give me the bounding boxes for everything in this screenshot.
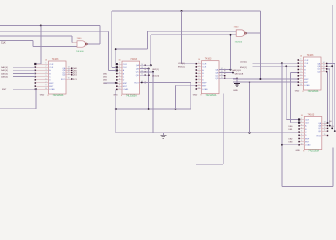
svg-text:7400: 7400 (234, 26, 240, 28)
svg-text:Q0: Q0 (329, 121, 332, 123)
net label QB5 (331, 126, 334, 128)
wire U2 RCO to vertical (140, 82, 191, 84)
svg-text:7: 7 (45, 81, 46, 83)
junction U5 QC (331, 127, 333, 129)
wire U2 QC vertical to bus B (152, 72, 154, 133)
net label LD4 (240, 61, 247, 63)
svg-text:LD3 [0]: LD3 [0] (178, 63, 185, 65)
svg-text:RCO: RCO (134, 82, 139, 84)
svg-text:QB2 [1]: QB2 [1] (152, 69, 159, 71)
net label EN3 [1] left of U3 (178, 67, 185, 69)
wire RST to U1 LOAD pin (13, 88, 35, 90)
junction U5 QD (334, 130, 336, 132)
svg-text:1: 1 (198, 62, 199, 64)
net label QB1 right of U1 (73, 70, 78, 72)
svg-text:RST: RST (2, 89, 7, 91)
svg-text:6: 6 (45, 78, 46, 80)
net label QD2 right of U2 (152, 75, 159, 77)
wire vertical x=334.8 (334, 64, 336, 132)
svg-text:16: 16 (119, 60, 121, 62)
wire U2 QB vertical to CLK bus (148, 69, 150, 109)
net label DB1 left of U2 (103, 77, 108, 79)
label U6A reference 7400 (77, 38, 83, 40)
junction CLK bus at 175.5 (175, 108, 177, 110)
svg-text:7400: 7400 (77, 38, 83, 40)
svg-text:CLR: CLR (304, 60, 309, 62)
svg-text:GND: GND (295, 91, 300, 93)
svg-text:14: 14 (68, 67, 70, 69)
net label QB3 (235, 73, 244, 75)
svg-text:4: 4 (198, 72, 199, 74)
svg-text:7: 7 (301, 137, 302, 139)
net label QC1 right of U1 (73, 73, 78, 75)
wire U6A output (87, 43, 100, 45)
svg-text:74LS00: 74LS00 (235, 41, 243, 43)
svg-text:74LS163A: 74LS163A (126, 94, 137, 97)
svg-text:8: 8 (303, 151, 304, 153)
wire vertical x=223.2 lower (222, 94, 224, 165)
wire RST vertical down (35, 89, 37, 109)
svg-text:9: 9 (119, 85, 120, 87)
wire U2 QB extension (140, 68, 150, 70)
label U6B value 74LS00 (235, 41, 243, 43)
svg-text:ENP: ENP (49, 83, 54, 85)
wire U3 CLK horizontal (176, 84, 196, 86)
svg-text:CLR: CLR (202, 64, 207, 66)
wire vertical x=327.5 (327, 72, 329, 123)
wire vertical x=333 bottom (332, 147, 334, 186)
svg-text:6: 6 (301, 134, 302, 136)
net label DA3 and wire to U1 (1, 76, 35, 79)
svg-text:EN3 [1]: EN3 [1] (178, 67, 185, 69)
svg-text:2: 2 (300, 62, 301, 64)
wire U4 pin B feed (253, 62, 298, 64)
svg-text:10: 10 (198, 87, 200, 89)
net label DB3 left of U5 (289, 142, 294, 144)
wire stub to U2 pin 2 (112, 66, 116, 68)
svg-text:11: 11 (323, 70, 325, 72)
svg-text:4: 4 (300, 68, 301, 70)
svg-text:LOAD: LOAD (305, 144, 311, 147)
svg-text:CLK: CLK (305, 122, 310, 124)
wire stub to U3 pin 1 (182, 63, 196, 65)
net label DB0 left of U5 (289, 126, 294, 128)
wire net B stub to U2 pin 3 (109, 70, 116, 72)
svg-text:1: 1 (300, 59, 301, 61)
junction U2 QA (150, 64, 152, 66)
wire U2 ENT wire left (104, 82, 116, 84)
junction CLK bus mid (148, 108, 150, 110)
net label DA1 and wire to U1 (1, 69, 35, 72)
junction U5 CLK (281, 144, 283, 146)
svg-text:8: 8 (201, 95, 202, 97)
svg-text:74LS163A: 74LS163A (308, 90, 319, 93)
svg-text:ENP: ENP (123, 83, 128, 85)
net label QA1 right of U1 (73, 67, 78, 70)
svg-text:CLK: CLK (123, 67, 128, 69)
svg-text:3: 3 (301, 124, 302, 126)
svg-text:9: 9 (301, 140, 302, 142)
wire stub U6A input 1 (72, 42, 77, 44)
svg-text:GND: GND (193, 94, 198, 96)
wire net C vertical into U6A input 1 (71, 36, 73, 43)
svg-text:12: 12 (68, 71, 70, 73)
svg-text:74163: 74163 (307, 54, 314, 57)
junction U5 QA (327, 122, 329, 124)
svg-text:4: 4 (301, 127, 302, 129)
svg-text:11: 11 (68, 73, 70, 75)
wire U3 QB extension (219, 72, 234, 74)
svg-text:11: 11 (324, 130, 326, 132)
wire H1 top feedback y=11 (112, 10, 261, 12)
junction RST wire (35, 88, 37, 90)
svg-text:15: 15 (68, 78, 70, 80)
svg-text:DA2 [0]: DA2 [0] (1, 72, 8, 75)
net label DB3 left of U2 (103, 83, 108, 85)
net label DB0 left of U2 (103, 73, 108, 75)
net label DB2 left of U2 (103, 80, 108, 82)
wire to U5 pin 2 (291, 122, 299, 124)
svg-text:13: 13 (323, 65, 325, 67)
svg-text:4: 4 (119, 72, 120, 74)
wire netA vertical x=115.8 (115, 49, 117, 64)
svg-text:DA0 [0]: DA0 [0] (1, 66, 8, 69)
wire U3 QD extension to GND (219, 78, 238, 80)
svg-text:LD4 [0]: LD4 [0] (240, 61, 247, 63)
junction U4 QB (331, 65, 333, 67)
net label QA3 (232, 69, 241, 72)
wire vertical 175.5 to U3 CLK (175, 85, 177, 109)
NAND gate U6B (236, 30, 246, 36)
svg-text:12: 12 (324, 127, 326, 129)
wire vertical x=286.3 to U5 (285, 66, 287, 119)
wire U6B output vertical to H1 (259, 11, 261, 33)
wire U4 ENP feed y=79 (233, 78, 297, 80)
svg-text:6: 6 (300, 74, 301, 76)
svg-text:LOAD: LOAD (304, 84, 310, 87)
junction U4 feed C (285, 65, 287, 67)
svg-text:10: 10 (45, 88, 47, 90)
wire U3 QA extension (219, 69, 232, 71)
wire U6B output vertical down (259, 33, 261, 79)
net label RST at left (2, 89, 7, 91)
net label QA5 (329, 121, 332, 123)
net label EN4 (240, 67, 247, 69)
wire vertical x=181.5 to U3 (181, 11, 183, 64)
wire U4 QB stub ext (326, 65, 332, 67)
svg-text:74LS163A: 74LS163A (308, 150, 319, 153)
counter U2 74163 (113, 58, 146, 97)
svg-text:5: 5 (300, 71, 301, 73)
svg-text:ENP: ENP (304, 79, 309, 81)
svg-text:1: 1 (301, 118, 302, 120)
junction CLK bus left (115, 108, 117, 110)
junction U4 feed B (281, 62, 283, 64)
svg-text:2: 2 (45, 66, 46, 68)
net label LD3 [0] left of U3 (178, 63, 185, 65)
wire bottom y=186.4 (282, 185, 333, 187)
svg-text:DA1 [0]: DA1 [0] (1, 69, 8, 72)
NAND gate U6A (77, 41, 87, 47)
svg-text:16: 16 (301, 115, 303, 117)
wire netB vertical x=150.8 to U2 QA (150, 35, 152, 66)
svg-text:9: 9 (45, 85, 46, 87)
svg-text:3: 3 (119, 69, 120, 71)
svg-text:6: 6 (119, 78, 120, 80)
svg-text:7: 7 (300, 77, 301, 79)
net label DB2 left of U5 (289, 138, 294, 140)
svg-text:7: 7 (119, 82, 120, 84)
svg-text:LOAD: LOAD (49, 88, 55, 91)
junction on ENP feed (259, 78, 261, 80)
net label RC1 right of U1 (73, 79, 78, 81)
wire U4 QC stub ext (326, 68, 330, 70)
net label QD1 right of U1 (73, 75, 78, 77)
wire netA horizontal y=49.1 (116, 48, 148, 50)
svg-text:9: 9 (198, 84, 199, 86)
svg-text:13: 13 (68, 69, 70, 71)
label U6B reference 7400 (234, 26, 240, 28)
wire CLK bus y=109 (116, 108, 191, 110)
wire U2 MR vertical down (115, 89, 117, 133)
label U6A value 74LS00 (76, 51, 84, 53)
svg-text:3: 3 (198, 69, 199, 71)
wire U4 pin C feed (253, 65, 298, 67)
net label DA0 and wire to U1 (1, 66, 35, 69)
ground symbol below U3 (234, 84, 240, 87)
wire vertical drop to U1 pin 1 (35, 26, 41, 64)
junction at (249.5,82.1) (249, 81, 251, 83)
junction U2 RCO (141, 82, 143, 84)
svg-text:2: 2 (119, 66, 120, 68)
svg-text:5: 5 (119, 75, 120, 77)
svg-text:CLR: CLR (49, 64, 54, 66)
svg-text:8: 8 (121, 95, 122, 97)
wire U3 QC stub (219, 75, 225, 77)
svg-text:12: 12 (323, 67, 325, 69)
svg-text:4: 4 (45, 72, 46, 74)
svg-text:9: 9 (300, 81, 301, 83)
svg-text:10: 10 (301, 143, 303, 145)
wire U5 CLK feed (282, 144, 298, 146)
wire RCO vertical x=190.8 (190, 83, 192, 110)
svg-text:RCO: RCO (317, 135, 322, 137)
wire U6B output (247, 32, 261, 34)
junction H1 at x=181.5 (181, 10, 183, 12)
wire horizontal y=164.2 (196, 163, 223, 165)
svg-text:1: 1 (119, 63, 120, 65)
svg-text:ENP: ENP (305, 138, 310, 140)
svg-text:CLK: CLK (49, 67, 54, 69)
wire input net B y=31.3 (0, 30, 109, 32)
wire U2 QA extension (140, 64, 151, 66)
svg-text:74LS163A: 74LS163A (53, 94, 64, 97)
junction on CLK net at x=40.8 (40, 25, 42, 27)
net label CLK at left edge (1, 42, 6, 45)
svg-text:5: 5 (45, 75, 46, 77)
svg-text:14: 14 (323, 62, 325, 64)
wire U4 QD stub ext (326, 71, 328, 73)
wire U2 QD stub (140, 74, 150, 76)
svg-text:16: 16 (45, 59, 47, 61)
svg-text:74LS00: 74LS00 (76, 51, 84, 53)
svg-text:CLK: CLK (202, 67, 207, 69)
svg-text:EN4 [1]: EN4 [1] (240, 67, 247, 69)
svg-text:DA3 [0]: DA3 [0] (1, 76, 8, 79)
svg-text:LOAD: LOAD (123, 88, 129, 91)
svg-text:CLK: CLK (304, 63, 309, 65)
counter U5 74163 (296, 113, 329, 152)
wire U4 mid pin to x=290.6 (291, 72, 298, 74)
wire vertical right edge x=332.2 (331, 5, 333, 129)
junction netA at (115.8,49.1) (115, 48, 117, 50)
wire GND stub below U3 (236, 78, 238, 83)
svg-text:QB3 [1] B: QB3 [1] B (235, 73, 244, 75)
svg-text:10: 10 (119, 88, 121, 90)
wire U2 QC extension (140, 71, 155, 73)
svg-text:3: 3 (300, 65, 301, 67)
svg-text:QA3 [0] B: QA3 [0] B (232, 69, 241, 72)
net label QB2 right of U2 (152, 69, 159, 71)
svg-text:3: 3 (45, 69, 46, 71)
wire netA to U6B input 1 (148, 30, 237, 32)
junction U6B input 2 (230, 34, 232, 36)
svg-text:14: 14 (324, 122, 326, 124)
wire vertical x=249.5 (249, 82, 251, 133)
svg-text:QD2 [3]: QD2 [3] (152, 75, 159, 77)
svg-text:7: 7 (198, 81, 199, 83)
junction bus B at x=249.5 (249, 132, 251, 134)
wire CLK net horizontal y=25.5 (NAND U6A output net) (0, 25, 100, 27)
wire vertical x=329.8 (329, 69, 331, 126)
wire long vertical x=281.9 (281, 63, 283, 186)
wire netB to U6B input 2 (151, 34, 237, 36)
svg-text:CLK: CLK (1, 42, 6, 45)
svg-text:16: 16 (300, 55, 302, 57)
svg-text:ENP: ENP (202, 82, 207, 84)
svg-text:8: 8 (303, 91, 304, 93)
wire RST horizontal to left edge (0, 108, 36, 110)
wire U4 ENT feed y=82.1 (233, 81, 297, 83)
svg-text:Q1: Q1 (331, 126, 334, 128)
svg-text:10: 10 (300, 84, 302, 86)
svg-text:CLR: CLR (123, 64, 128, 66)
svg-text:GND: GND (296, 150, 301, 152)
wire net D vertical into U6A input 2 (33, 41, 77, 47)
svg-text:74163: 74163 (52, 58, 59, 61)
svg-text:RCO: RCO (61, 79, 66, 81)
svg-text:LOAD: LOAD (202, 88, 208, 91)
svg-text:6: 6 (198, 78, 199, 80)
svg-text:GND: GND (233, 90, 238, 92)
ground symbol on bus B (160, 133, 166, 139)
counter U1 74163 (34, 58, 72, 97)
junction U2 ENT (115, 82, 117, 84)
wire to U5 pin 1 (286, 119, 298, 121)
label GND below U3 (233, 90, 238, 92)
svg-text:5: 5 (198, 75, 199, 77)
svg-text:GND: GND (40, 95, 45, 97)
svg-text:5: 5 (301, 131, 302, 133)
wire bus B y=132.8 (116, 132, 298, 134)
wire U3 QA vertical to U6B (230, 35, 232, 70)
net label DA2 and wire to U1 (1, 72, 35, 75)
wire input net D y=40.5 (0, 40, 33, 42)
counter U3 74163 (193, 58, 226, 97)
svg-text:74LS163A: 74LS163A (206, 94, 217, 97)
svg-text:1: 1 (45, 63, 46, 65)
counter U4 74163 (295, 54, 328, 93)
wire U4 QA stub ext (326, 63, 335, 65)
wire U6A output vertical to y=25.5 (99, 26, 101, 45)
wire net B vertical x=108.5 (108, 31, 110, 70)
net label DB1 left of U5 (289, 129, 294, 131)
wire input net C y=36 to gate input (0, 35, 72, 37)
svg-text:2: 2 (301, 121, 302, 123)
svg-text:74163: 74163 (130, 58, 137, 61)
svg-text:13: 13 (324, 124, 326, 126)
wire netA vertical x=147.5 (147, 31, 149, 49)
svg-text:74163: 74163 (308, 113, 315, 116)
svg-text:CLR: CLR (305, 119, 310, 121)
wire H1 vertical x=111.8 down to U2 (111, 11, 113, 67)
svg-text:2: 2 (198, 65, 199, 67)
svg-text:74163: 74163 (205, 58, 212, 61)
wire vertical x=290.6 to U5 (290, 73, 292, 123)
svg-text:8: 8 (48, 95, 49, 97)
junction U5 QB (329, 125, 331, 127)
svg-text:16: 16 (198, 59, 200, 61)
svg-text:15: 15 (324, 134, 326, 136)
